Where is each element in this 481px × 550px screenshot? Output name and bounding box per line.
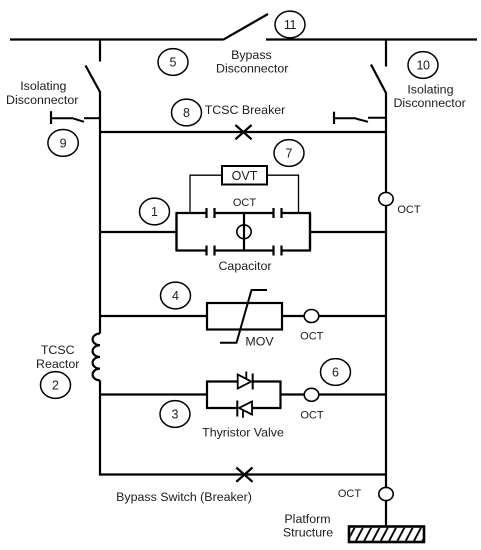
svg-text:5: 5 — [170, 56, 177, 70]
capacitor bank bottom rail — [176, 249, 312, 251]
svg-text:Capacitor: Capacitor — [218, 259, 271, 273]
svg-text:OCT: OCT — [300, 410, 324, 422]
wire: OVT left lead — [190, 175, 222, 213]
svg-text:7: 7 — [286, 147, 293, 161]
OCT sensor circle on right bus (lower) — [379, 487, 393, 500]
MOV varistor diagonal stroke — [220, 290, 267, 343]
label circle 10 — [408, 52, 438, 79]
svg-text:Reactor: Reactor — [36, 357, 79, 371]
svg-text:TCSC: TCSC — [41, 343, 75, 357]
wire from terminal bar — [51, 117, 74, 119]
svg-text:Thyristor Valve: Thyristor Valve — [202, 426, 284, 440]
thyristor T1 (points right) triangle — [238, 375, 252, 389]
OCT sensor circle in capacitor middle tie — [237, 225, 251, 239]
wire: right vertical bus — [385, 93, 387, 528]
OCT sensor circle on MOV branch — [304, 310, 319, 323]
svg-text:Disconnector: Disconnector — [216, 61, 288, 75]
wire: right bus top stub — [385, 39, 387, 67]
wire: left vertical bus upper — [99, 92, 101, 334]
svg-text:OCT: OCT — [338, 488, 362, 500]
left isolating disconnector blade — [86, 66, 101, 93]
svg-text:OVT: OVT — [232, 169, 258, 183]
svg-text:Bypass Switch (Breaker): Bypass Switch (Breaker) — [116, 490, 252, 504]
svg-text:Platform: Platform — [284, 512, 330, 526]
svg-text:8: 8 — [183, 106, 190, 120]
capacitor bank left edge — [175, 213, 177, 251]
wire: left bus top stub — [99, 39, 101, 62]
platform structure hatched block — [346, 525, 431, 544]
svg-text:11: 11 — [284, 18, 297, 32]
thyristor valve right bar — [279, 382, 281, 409]
svg-text:OCT: OCT — [397, 204, 421, 216]
wire: bypass switch branch — [100, 473, 386, 475]
svg-text:1: 1 — [151, 205, 158, 219]
wire: left vertical bus lower — [99, 380, 101, 475]
svg-text:Isolating: Isolating — [407, 83, 453, 97]
thyristor valve left bar — [206, 382, 208, 409]
wire from terminal bar — [334, 117, 356, 119]
OVT box — [222, 166, 267, 185]
wire: MOV branch left lead — [100, 315, 207, 317]
label: TCSC Reactor — [36, 343, 79, 371]
OCT sensor circle on thyristor branch — [304, 388, 319, 401]
svg-text:Disconnector: Disconnector — [393, 96, 465, 110]
wire: MOV box to OCT — [282, 315, 305, 317]
wire from blade to right bus — [368, 117, 386, 119]
label circle 3 — [160, 401, 190, 428]
wire: valve to OCT — [281, 393, 305, 395]
thyristor T1 gate lead — [245, 372, 247, 379]
thyristor T2 (points left) triangle — [239, 402, 252, 415]
TCSC breaker X symbol — [235, 125, 251, 139]
label: Isolating Disconnector (right) — [393, 83, 465, 111]
label circle 8 — [172, 99, 202, 126]
svg-text:Disconnector: Disconnector — [6, 93, 78, 107]
wire from blade to left bus — [84, 117, 100, 119]
right isolating disconnector earthed-side switch: terminal bar — [333, 112, 335, 124]
capacitor C bottom-right plates — [274, 246, 282, 256]
left isolating disconnector earthed-side switch: terminal bar — [50, 111, 52, 124]
svg-text:2: 2 — [52, 379, 59, 393]
svg-text:MOV: MOV — [245, 335, 274, 349]
capacitor C top-left plates — [207, 208, 215, 218]
label circle 9 — [48, 130, 78, 157]
capacitor C bottom-left plates — [207, 246, 215, 256]
OCT sensor circle on right bus (upper) — [379, 192, 393, 205]
wire: capacitor bank middle tie — [243, 213, 245, 251]
wire: top bus right segment — [266, 38, 477, 40]
thyristor T1 cathode bar — [252, 374, 254, 390]
thyristor valve bottom rail — [206, 407, 282, 409]
svg-text:10: 10 — [416, 59, 430, 73]
label circle 2 — [41, 372, 71, 399]
right isolating disconnector blade — [371, 65, 386, 94]
right switch blade (slightly open) — [356, 119, 368, 122]
capacitor bank top rail — [176, 212, 312, 214]
svg-text:Structure: Structure — [283, 526, 333, 540]
wire: TCSC breaker branch — [100, 131, 386, 133]
wire: capacitor branch right lead — [310, 231, 386, 233]
left switch blade (slightly open) — [74, 119, 85, 122]
label circle 7 — [274, 140, 304, 167]
bypass disconnector open blade (switch 11) — [223, 14, 268, 40]
thyristor valve top rail — [206, 380, 282, 382]
label: Bypass Disconnector — [216, 48, 288, 76]
label: Platform Structure — [283, 512, 333, 540]
bypass switch X symbol — [236, 468, 252, 482]
svg-text:OCT: OCT — [300, 331, 324, 343]
thyristor T2 cathode bar — [236, 401, 238, 417]
svg-text:9: 9 — [60, 136, 67, 150]
wire: thyristor branch left lead — [100, 393, 207, 395]
label circle 6 — [321, 359, 351, 386]
svg-text:6: 6 — [332, 366, 339, 380]
wire: MOV OCT to right bus — [319, 315, 387, 317]
thyristor T2 gate lead — [242, 411, 244, 418]
inductor TCSC reactor coil — [93, 333, 100, 380]
wire: top bus left segment — [10, 38, 223, 40]
label circle 1 — [140, 198, 170, 225]
wire: thyristor OCT to right bus — [319, 393, 387, 395]
svg-text:OCT: OCT — [233, 197, 257, 209]
wire: capacitor branch left lead — [100, 231, 177, 233]
capacitor bank right edge — [309, 213, 311, 251]
wire: OVT right lead — [267, 175, 299, 213]
label circle 11 — [275, 11, 305, 38]
capacitor C top-right plates — [274, 208, 282, 218]
svg-text:Isolating: Isolating — [20, 79, 66, 93]
svg-text:3: 3 — [172, 408, 179, 422]
svg-text:TCSC Breaker: TCSC Breaker — [205, 103, 286, 117]
label: Isolating Disconnector (left) — [6, 79, 78, 107]
MOV box — [207, 303, 282, 330]
svg-text:Bypass: Bypass — [231, 48, 272, 62]
svg-text:4: 4 — [172, 289, 179, 303]
label circle 5 — [158, 49, 188, 76]
label circle 4 — [161, 282, 191, 309]
